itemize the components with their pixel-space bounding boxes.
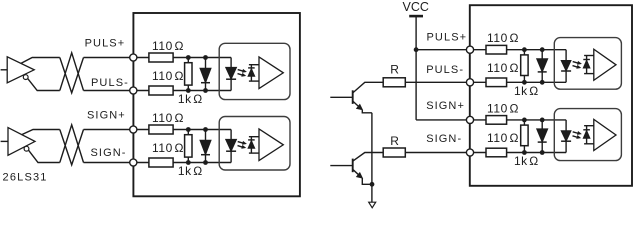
resistor 1kohm SIGN (left): [185, 130, 192, 163]
wire PULS+ to terminal: [84, 57, 134, 59]
wire Q1 base lead: [330, 96, 352, 98]
label R2: [390, 134, 399, 148]
light arrows SIGN (left): [238, 142, 246, 149]
VCC power bar: [409, 15, 423, 18]
label 110ohm SIGN (right) top: [487, 101, 519, 115]
svg-text:R: R: [390, 134, 399, 148]
wire PULS+ feed (right): [416, 49, 470, 51]
label 110ohm PULS (right) bottom: [487, 61, 519, 75]
wire R2 to SIGN- terminal: [405, 152, 470, 154]
resistor 1kohm SIGN (right): [521, 120, 528, 153]
wire PULS (right) top rail: [470, 49, 566, 51]
transistor Q1 base bar: [352, 90, 354, 104]
op-amp style line driver U1A (26LS31 gate): [7, 57, 34, 83]
label SIGN- (left): [91, 147, 127, 159]
svg-text:SIGN+: SIGN+: [87, 110, 126, 122]
label PULS- (left): [91, 77, 129, 89]
optocoupler SIGN (left) package outline: [219, 117, 290, 171]
protection diode SIGN (right): [537, 120, 548, 153]
svg-text:110Ω: 110Ω: [487, 31, 519, 45]
wire PULS (left) top rail: [133, 57, 231, 59]
terminal SIGN- (right box): [466, 149, 473, 156]
wire Q2 base lead: [330, 165, 352, 167]
resistor R1: [383, 78, 405, 87]
resistor 110ohm SIGN (right) top: [486, 116, 507, 125]
label 1kohm PULS (right): [514, 84, 539, 98]
label 110ohm SIGN (left) bottom: [152, 141, 184, 155]
junction dots SIGN (right) bottom rail: [522, 150, 545, 155]
svg-text:PULS+: PULS+: [85, 38, 126, 50]
protection diode PULS (left): [200, 58, 211, 91]
terminal PULS+ (left box): [130, 54, 137, 61]
wire SIGN+ to terminal: [84, 129, 134, 131]
label 1kohm SIGN (right): [514, 154, 539, 168]
svg-text:110Ω: 110Ω: [152, 141, 184, 155]
svg-text:PULS+: PULS+: [427, 32, 468, 44]
label 110ohm PULS (right) top: [487, 31, 519, 45]
output buffer amplifier PULS (left): [259, 57, 283, 89]
svg-text:SIGN-: SIGN-: [91, 147, 127, 159]
wire PULS- to terminal: [84, 90, 134, 92]
svg-text:1kΩ: 1kΩ: [514, 154, 539, 168]
resistor 110ohm PULS (right) bottom: [486, 78, 507, 87]
junction dots PULS (right) bottom rail: [522, 80, 545, 85]
wire U1B non-inverting output: [22, 130, 60, 135]
svg-text:1kΩ: 1kΩ: [178, 164, 203, 178]
label SIGN+ (right): [426, 100, 465, 112]
driver-side interface box (left receiver module): [133, 13, 300, 196]
wire SIGN (left) bottom rail: [133, 162, 231, 164]
optocoupler PULS (left) package outline: [219, 43, 290, 99]
wire PULS (left) bottom rail: [133, 90, 231, 92]
optocoupler SIGN (right) package outline: [554, 109, 621, 161]
label PULS+ (right): [427, 32, 468, 44]
label 110ohm SIGN (left) top: [152, 111, 184, 125]
optocoupler PULS (right) package outline: [554, 38, 621, 90]
photodetector SIGN (left): [248, 137, 259, 153]
label 1kohm PULS (left): [178, 92, 203, 106]
label R1: [390, 62, 399, 76]
op-amp style line driver U1B (26LS31 gate): [8, 128, 35, 156]
wire U1A non-inverting output: [21, 58, 60, 64]
label 110ohm PULS (left) top: [152, 39, 184, 53]
optocoupler LED SIGN (right): [561, 120, 571, 153]
wire R1 to PULS- terminal: [405, 81, 470, 83]
wire SIGN (right) bottom rail: [470, 152, 566, 154]
junction dot Q2 emitter: [370, 182, 375, 187]
label 1kohm SIGN (left): [178, 164, 203, 178]
svg-text:26LS31: 26LS31: [3, 172, 48, 184]
output buffer amplifier SIGN (right): [594, 119, 616, 150]
photodetector PULS (left): [248, 65, 259, 81]
wire Q1 collector: [353, 82, 383, 92]
protection diode PULS (right): [537, 50, 548, 83]
svg-text:1kΩ: 1kΩ: [514, 84, 539, 98]
twisted pair PULS wire A: [60, 58, 84, 93]
optocoupler LED PULS (left): [226, 58, 237, 91]
junction dots PULS (right) top rail: [522, 47, 545, 52]
terminal PULS- (right box): [466, 79, 473, 86]
resistor 110ohm SIGN (right) bottom: [486, 148, 507, 157]
junction dots SIGN (left) top rail: [186, 127, 208, 132]
Q1 emitter with arrow: [353, 102, 372, 113]
terminal PULS+ (right box): [466, 46, 473, 53]
wire U1A inverting output: [28, 79, 60, 91]
junction dot VCC/PULS+: [414, 47, 419, 52]
label 110ohm SIGN (right) bottom: [487, 131, 519, 145]
light arrows SIGN (right): [573, 132, 581, 139]
resistor 1kohm PULS (left): [185, 58, 192, 91]
inversion bubble of U1A: [23, 75, 28, 80]
svg-text:110Ω: 110Ω: [487, 131, 519, 145]
label PULS+ (left): [85, 38, 126, 50]
Q2 emitter with arrow: [353, 170, 370, 185]
resistor 110ohm PULS (left) bottom: [149, 86, 173, 95]
svg-text:110Ω: 110Ω: [152, 69, 184, 83]
resistor R2: [383, 148, 405, 157]
resistor 110ohm SIGN (left) bottom: [149, 158, 173, 167]
protection diode SIGN (left): [200, 130, 211, 163]
light arrows PULS (right): [573, 62, 581, 69]
label PULS- (right): [426, 64, 464, 76]
optocoupler LED PULS (right): [561, 50, 571, 83]
svg-text:1kΩ: 1kΩ: [178, 92, 203, 106]
wire VCC rail: [415, 16, 417, 120]
resistor 1kohm PULS (right): [521, 50, 528, 83]
wire SIGN (right) top rail: [470, 119, 566, 121]
svg-text:110Ω: 110Ω: [152, 39, 184, 53]
svg-text:R: R: [390, 62, 399, 76]
junction dots SIGN (left) bottom rail: [186, 160, 208, 165]
ground symbol: [369, 202, 376, 208]
terminal SIGN+ (right box): [466, 116, 473, 123]
wire SIGN+ feed (right): [416, 119, 470, 121]
svg-text:110Ω: 110Ω: [487, 61, 519, 75]
wire SIGN (left) top rail: [133, 129, 231, 131]
svg-text:PULS-: PULS-: [426, 64, 464, 76]
twisted pair PULS wire B: [60, 53, 84, 91]
twisted pair SIGN wire A: [60, 130, 84, 165]
wire SIGN- to terminal: [84, 162, 134, 164]
output buffer amplifier PULS (right): [594, 49, 616, 80]
svg-text:110Ω: 110Ω: [152, 111, 184, 125]
terminal SIGN+ (left box): [130, 126, 137, 133]
label 26LS31: [3, 172, 48, 184]
junction dots PULS (left) top rail: [186, 55, 208, 60]
label SIGN- (right): [426, 133, 462, 145]
svg-text:SIGN+: SIGN+: [426, 100, 465, 112]
photodetector PULS (right): [583, 56, 594, 74]
inversion bubble of U1B: [24, 146, 29, 151]
junction dots SIGN (right) top rail: [522, 118, 545, 123]
output buffer amplifier SIGN (left): [259, 129, 283, 161]
resistor 110ohm PULS (left) top: [149, 53, 173, 62]
junction dots PULS (left) bottom rail: [186, 88, 208, 93]
svg-text:VCC: VCC: [402, 0, 428, 14]
wire U1B inverting output: [29, 150, 60, 162]
twisted pair SIGN wire B: [60, 125, 84, 163]
label SIGN+ (left): [87, 110, 126, 122]
wire Q2 collector: [353, 153, 383, 161]
light arrows PULS (left): [238, 70, 246, 77]
photodetector SIGN (right): [583, 126, 594, 144]
svg-text:110Ω: 110Ω: [487, 101, 519, 115]
terminal SIGN- (left box): [130, 159, 137, 166]
svg-text:PULS-: PULS-: [91, 77, 129, 89]
optocoupler LED SIGN (left): [226, 130, 237, 163]
svg-text:SIGN-: SIGN-: [426, 133, 462, 145]
transistor Q2 base bar: [352, 159, 354, 173]
input stub of U1B: [1, 140, 8, 142]
controller-side interface box (right receiver module): [470, 5, 632, 186]
wire emitter bus to ground: [371, 113, 373, 202]
resistor 110ohm PULS (right) top: [486, 45, 507, 54]
resistor 110ohm SIGN (left) top: [149, 125, 173, 134]
label 110ohm PULS (left) bottom: [152, 69, 184, 83]
wire PULS (right) bottom rail: [470, 81, 566, 83]
label VCC: [402, 0, 428, 14]
input stub of U1A: [1, 69, 8, 71]
terminal PULS- (left box): [130, 87, 137, 94]
